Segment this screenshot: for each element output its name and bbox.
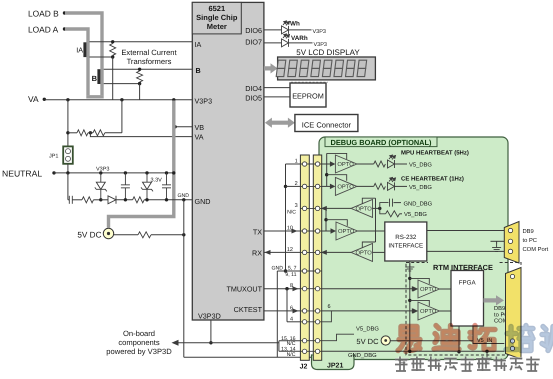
wire JP21 pin6 to opto7 <box>322 310 413 312</box>
wire DB9 gnd stub <box>491 240 505 242</box>
ground symbol RS232 <box>405 264 414 272</box>
LCD digit 5 <box>322 60 332 76</box>
arrow into pin3 <box>321 206 327 211</box>
wire JP21 pin10 to opto4 <box>322 230 331 232</box>
svg-text:GND: GND <box>178 193 190 199</box>
pin circle JP21 row 9 <box>315 320 319 324</box>
wire IB burden to V3P3 net <box>139 84 141 100</box>
junction cap1 bottom <box>124 198 127 201</box>
wire IA secondary top to chip IA <box>90 41 193 43</box>
wire CKTEST to J2 pin6 <box>264 310 301 312</box>
junction neutral-zener2 <box>145 171 148 174</box>
wire to v5_dbg resistor <box>380 208 386 213</box>
svg-text:LOAD B: LOAD B <box>28 9 59 19</box>
wire DIO6 to Wh LED <box>264 29 282 31</box>
junction opto6 feed <box>408 277 411 280</box>
svg-text:DIO6: DIO6 <box>245 26 262 35</box>
5V DC input terminal <box>103 228 113 238</box>
DB9 connector COM port <box>504 222 519 264</box>
LED Wh <box>282 21 290 34</box>
svg-text:V3P3: V3P3 <box>195 97 213 106</box>
wire chip VB pin stub <box>175 126 192 128</box>
RTM interface dashed box <box>406 263 521 356</box>
LCD digit 7 <box>345 60 355 76</box>
wire DIO4 to EEPROM <box>264 87 290 89</box>
wire opto3 input <box>373 207 380 209</box>
junction zener1 bottom <box>99 198 102 201</box>
svg-text:VB: VB <box>195 123 205 132</box>
LED VARh <box>282 34 290 47</box>
svg-text:CE HEARTBEAT (1Hz): CE HEARTBEAT (1Hz) <box>401 176 464 183</box>
junction divider input <box>66 131 69 134</box>
pin circle JP21 row 8 <box>315 309 319 313</box>
wire V3P3D horizontal <box>178 342 268 344</box>
wire IA secondary bottom <box>90 56 113 58</box>
LCD display body <box>278 57 376 80</box>
connector J2 strip <box>300 155 309 360</box>
wire thick load bottom join <box>86 95 103 98</box>
svg-text:3.3V: 3.3V <box>151 178 163 184</box>
wire TMUXOUT to J2 pin8 <box>264 288 301 290</box>
wire opto4 out to RS232 <box>358 230 385 232</box>
node LOAD B terminal <box>63 11 66 14</box>
svg-text:TMUXOUT: TMUXOUT <box>226 285 262 294</box>
svg-text:to PC: to PC <box>523 237 538 244</box>
svg-text:N/C: N/C <box>287 352 296 358</box>
wire opto6 out to FPGA <box>440 288 452 290</box>
wire to pin1 <box>286 163 301 165</box>
svg-text:CKTEST: CKTEST <box>234 305 263 314</box>
junction V3P3D <box>209 341 212 344</box>
LCD digit 1 <box>276 60 286 76</box>
wire GND vertical drop <box>183 200 185 357</box>
arrow TMUXOUT <box>293 286 299 291</box>
svg-text:GND: GND <box>195 197 211 206</box>
svg-text:IA: IA <box>195 40 202 49</box>
svg-text:powered by V3P3D: powered by V3P3D <box>106 347 172 356</box>
wire J2-JP21 row 11 <box>300 350 322 352</box>
pin circle J2 row 9 <box>302 320 306 324</box>
svg-text:INTERFACE: INTERFACE <box>388 243 423 250</box>
watermark blue text pei xun <box>506 326 533 351</box>
6521 single chip meter U1 body <box>192 2 264 320</box>
svg-text:9, 11: 9, 11 <box>285 272 296 278</box>
wire to R1 <box>68 132 77 134</box>
wire opto2 top feed <box>327 175 347 181</box>
LCD digit 3 <box>299 60 309 76</box>
wire LED to V5_DBG <box>395 185 408 187</box>
wire JP21 pins15-16 V5_DBG <box>322 334 354 341</box>
EEPROM box <box>290 83 326 107</box>
connector JP21 strip <box>313 155 321 360</box>
arrow RX into chip <box>265 250 271 255</box>
pin circle J2 row 6 <box>302 269 306 273</box>
svg-text:V3P3D: V3P3D <box>198 311 221 320</box>
svg-text:6: 6 <box>328 304 331 310</box>
pin circle J2 row 1 <box>302 162 306 166</box>
junction between divider resistors <box>89 131 92 134</box>
ICE Connector box <box>295 115 358 132</box>
svg-text:OPTO: OPTO <box>356 206 373 213</box>
junction NEUTRAL to thick rail <box>172 171 175 174</box>
wire J2-JP21 row 8 <box>300 310 322 312</box>
svg-text:DIO4: DIO4 <box>245 84 262 93</box>
watermark red text yi di tuo <box>398 327 420 352</box>
debug board outline <box>319 137 508 360</box>
wire GND bottom run <box>184 356 403 358</box>
svg-text:Meter: Meter <box>207 22 227 31</box>
svg-text:On-board: On-board <box>123 329 155 338</box>
opto U7 <box>418 280 440 298</box>
transformer IA primary core bar <box>83 42 86 57</box>
junction IB burden top <box>138 68 141 71</box>
LED CE heartbeat <box>388 177 396 190</box>
wire 5VDC to resistor <box>114 234 138 236</box>
ICE connector double arrow <box>265 118 295 128</box>
opto U4 <box>351 199 373 217</box>
RS-232 interface box <box>385 222 427 261</box>
wire gnd row <box>72 199 82 201</box>
svg-text:Wh: Wh <box>290 21 300 28</box>
svg-text:VA: VA <box>195 133 204 142</box>
wire thick LOAD A <box>65 29 88 95</box>
wire divider riser to V3P3 net <box>121 100 123 133</box>
svg-text:JP21: JP21 <box>327 363 343 370</box>
DB9 pin circle <box>508 249 512 253</box>
wire NEUTRAL drop to bottom row <box>67 173 69 200</box>
arrow opto7 in <box>412 308 418 313</box>
junction opto3 input <box>378 207 381 210</box>
wire gnd pins drop <box>276 271 278 357</box>
wire J2-JP21 row 4 <box>300 230 322 232</box>
opto U5 <box>336 222 358 240</box>
svg-text:DB9: DB9 <box>494 305 505 312</box>
node VA terminal <box>43 98 46 101</box>
svg-text:DB9: DB9 <box>523 228 534 235</box>
wire J2-JP21 row 7 <box>300 288 322 290</box>
debug board JP21 tab <box>312 355 355 370</box>
faint dashed artifact under LCD <box>291 81 328 83</box>
pin circle J2 row 11 <box>302 349 306 353</box>
pin circle J2 row 3 <box>302 206 306 210</box>
junction GND drop top <box>182 198 185 201</box>
wire opto5 out to JP21 pin12 <box>326 251 352 253</box>
pin circle JP21 row 7 <box>315 287 319 291</box>
junction gnd right <box>485 350 488 353</box>
node NEUTRAL terminal <box>52 171 55 174</box>
junction pin8-pin4 <box>285 287 288 290</box>
svg-text:TX: TX <box>253 227 262 236</box>
wire opto1 out <box>357 163 374 165</box>
zener diode D1 <box>95 173 107 200</box>
junction pin2 bus <box>284 185 287 188</box>
resistor 5VDC series <box>138 232 151 238</box>
chip title compartment <box>192 2 241 34</box>
wire thick LOAD B <box>65 13 102 95</box>
wire GND_DBG bottom run <box>322 350 504 352</box>
junction zener2 bottom <box>145 198 148 201</box>
wire opto5 top feed <box>362 242 375 248</box>
opto U8 <box>418 302 440 320</box>
bus arrow chip to LCD <box>264 63 278 73</box>
wire RS232 to opto5 <box>373 251 385 253</box>
FPGA box <box>451 271 484 327</box>
wire JP21 pin2 to opto2 <box>322 185 330 187</box>
svg-text:B: B <box>196 66 201 75</box>
svg-text:ICE Connector: ICE Connector <box>302 120 352 129</box>
junction neutral-cap1 <box>124 171 127 174</box>
junction VB on thick rail <box>173 125 176 128</box>
wire to pin2 <box>286 185 301 187</box>
wire JP21 pin1 to opto1 <box>322 163 330 165</box>
svg-text:N/C: N/C <box>287 209 296 215</box>
pin circle JP21 row 1 <box>315 162 319 166</box>
svg-text:JP1: JP1 <box>49 154 58 160</box>
resistor R4 <box>133 197 145 203</box>
DB9 pin circle <box>508 228 512 232</box>
svg-text:External Current: External Current <box>121 48 177 57</box>
svg-text:5V LCD DISPLAY: 5V LCD DISPLAY <box>296 48 360 57</box>
svg-text:LOAD A: LOAD A <box>28 25 59 35</box>
wire opto7 top feed <box>410 300 430 306</box>
bus arrow FPGA to DB9 RTM <box>484 295 505 305</box>
svg-text:Single Chip: Single Chip <box>196 13 238 22</box>
svg-text:J2: J2 <box>300 364 308 371</box>
wire JP1 to neutral <box>67 164 69 173</box>
wire VA / V3P3 net to chip V3P3 pin <box>44 99 192 101</box>
pin circle JP21 row 2 <box>315 184 319 188</box>
5V DC debug terminal <box>381 336 390 345</box>
ground symbol DB9 <box>492 244 501 252</box>
resistor CE LED <box>374 183 386 189</box>
capacitor C1 <box>121 173 130 200</box>
junction VA net <box>66 98 69 101</box>
svg-text:COM Port: COM Port <box>523 246 549 253</box>
pin circle J2 row 8 <box>302 309 306 313</box>
LCD digit 2 <box>288 60 298 76</box>
junction gnd bus <box>284 269 287 272</box>
wire VA down to JP1 <box>67 100 69 147</box>
pin circle JP21 row 6 <box>315 269 319 273</box>
transformer IB primary core bar <box>97 69 100 84</box>
wire RX from J2 pin12 <box>264 251 301 253</box>
wire gnd pins 5 7 <box>277 270 300 272</box>
wire opto3 top feed <box>362 198 375 204</box>
arrow CKTEST <box>293 308 299 313</box>
wire thick 5VDC power rail <box>109 101 174 228</box>
wire Wh LED to V3P3 <box>289 29 312 31</box>
wire opto3 out to JP21 pin3 <box>326 207 352 209</box>
pin circle J2 row 5 <box>302 250 306 254</box>
wire J2-JP21 row 1 <box>300 163 322 165</box>
wire RS232 to DB9 line2 <box>427 250 505 252</box>
wire gnd row to chip GND pin <box>144 199 192 201</box>
svg-text:OPTO: OPTO <box>420 286 437 293</box>
svg-text:V5_DBG: V5_DBG <box>409 184 432 191</box>
junction neutral-zener1 <box>99 171 102 174</box>
wire opto1 top feed <box>327 153 347 159</box>
jumper JP1 <box>63 146 73 163</box>
wire DIO7 to VARh LED <box>264 42 282 44</box>
svg-text:V3P3: V3P3 <box>96 167 109 173</box>
svg-text:IA: IA <box>76 46 83 55</box>
wire opto3-5 feed bus <box>375 198 377 242</box>
LCD digit 8 <box>357 60 367 76</box>
wire RS232 to DB9 line1 <box>427 230 505 232</box>
wire pin8 to pin4 <box>286 289 288 322</box>
pin circle JP21 row 4 <box>315 229 319 233</box>
svg-text:DIO7: DIO7 <box>245 38 262 47</box>
svg-text:B: B <box>92 74 98 83</box>
wire FPGA V5 leg <box>473 326 504 344</box>
resistor MPU LED <box>374 161 386 167</box>
svg-text:components: components <box>118 338 160 347</box>
ground symbol RTM right <box>483 355 492 363</box>
DB9 pin circle <box>508 239 512 243</box>
svg-text:3: 3 <box>295 203 298 209</box>
ground symbol meter GND <box>398 357 407 365</box>
wire divider tap to chip VA pin <box>90 133 192 137</box>
capacitor series C3 <box>69 196 72 204</box>
wire NEUTRAL bus <box>54 172 174 174</box>
junction FPGA gnd <box>457 350 460 353</box>
opto U3 <box>335 177 357 195</box>
resistor divider R1 <box>77 130 88 136</box>
wire VARh LED to V3P3 <box>289 42 313 44</box>
junction opto2 feed <box>325 173 328 176</box>
svg-text:V5_DBG: V5_DBG <box>409 161 432 168</box>
wire J2-JP21 row 5 <box>300 251 322 253</box>
opto U6 <box>351 243 373 261</box>
opto U2 <box>335 155 357 173</box>
wire opto7 out to FPGA <box>440 310 452 312</box>
svg-text:DEBUG BOARD (OPTIONAL): DEBUG BOARD (OPTIONAL) <box>330 138 432 147</box>
svg-text:V5_DBG: V5_DBG <box>404 211 427 218</box>
LCD digit 6 <box>334 60 344 76</box>
watermark gray text row <box>395 357 409 372</box>
wire IB secondary bottom <box>104 83 140 85</box>
junction IA burden top <box>111 40 114 43</box>
pin circle J2 row 7 <box>302 287 306 291</box>
svg-text:EEPROM: EEPROM <box>292 91 324 100</box>
wire LED to V5_DBG <box>395 163 408 165</box>
svg-text:NEUTRAL: NEUTRAL <box>2 169 42 179</box>
wire opto feed bus <box>326 153 328 186</box>
wire opto6 top feed <box>410 278 430 284</box>
junction divider top <box>120 98 123 101</box>
wire to gnd_dbg cap <box>380 203 389 209</box>
pin circle JP21 row 11 <box>315 349 319 353</box>
wire R2 to riser <box>105 132 122 134</box>
capacitor C4 <box>390 199 393 207</box>
wire IA burden to V3P3 net <box>112 57 114 100</box>
svg-text:5V DC: 5V DC <box>77 231 101 240</box>
arrow into pin12 <box>321 250 327 255</box>
junction IB burden bottom <box>138 82 141 85</box>
pin circle J2 row 4 <box>302 229 306 233</box>
svg-text:OPTO: OPTO <box>337 161 354 168</box>
svg-text:5V DC: 5V DC <box>356 337 379 346</box>
svg-text:DIO5: DIO5 <box>245 93 262 102</box>
svg-text:RS-232: RS-232 <box>395 234 417 241</box>
diode D3 <box>108 196 116 204</box>
svg-text:MPU HEARTBEAT (5Hz): MPU HEARTBEAT (5Hz) <box>401 149 469 156</box>
wire J2-JP21 row 2 <box>300 185 322 187</box>
LCD digit 4 <box>311 60 321 76</box>
wire J2-JP21 row 9 <box>300 321 322 323</box>
pin circle JP21 row 3 <box>315 206 319 210</box>
resistor R3 <box>82 197 94 203</box>
resistor IA burden <box>110 44 116 56</box>
svg-text:V5_DBG: V5_DBG <box>356 326 379 333</box>
svg-text:OPTO: OPTO <box>338 228 355 235</box>
wire J2-JP21 row 3 <box>300 207 322 209</box>
wire J2-JP21 row 10 <box>300 340 322 342</box>
resistor IB burden <box>137 71 143 82</box>
node LOAD A terminal <box>63 27 66 30</box>
arrow to note <box>172 340 179 346</box>
arrow opto6 in <box>412 286 418 291</box>
junction NEUTRAL-JP1 <box>66 171 69 174</box>
DB9 connector RTM port <box>506 268 522 360</box>
junction opto7 feed <box>408 299 411 302</box>
junction neutral-cap2 <box>165 171 168 174</box>
wire JP21 pin8 to opto6 <box>322 288 413 290</box>
svg-text:VARh: VARh <box>291 35 308 42</box>
wire R1-R2 <box>88 132 93 134</box>
svg-text:VA: VA <box>28 94 39 104</box>
svg-text:OPTO: OPTO <box>356 250 373 257</box>
wire RTM gnd bus <box>409 261 411 352</box>
wire V3P3D to J2 pins 15/16 13/14 <box>268 341 300 352</box>
wire IB secondary top to chip IB <box>104 68 193 70</box>
pin circle J2 row 10 <box>302 339 306 343</box>
junction V3P3 thick wire top <box>172 98 175 101</box>
wire J2 pins1-2 gnd bus <box>285 164 287 271</box>
junction on GND drop <box>182 233 185 236</box>
svg-text:OPTO: OPTO <box>420 308 437 315</box>
svg-text:GND_DBG: GND_DBG <box>404 200 433 207</box>
junction IA burden bottom <box>111 55 114 58</box>
junction gnd bus bottom <box>408 350 411 353</box>
svg-text:Transformers: Transformers <box>127 57 172 66</box>
capacitor C2 <box>162 173 171 200</box>
junction cap2 bottom <box>165 198 168 201</box>
wire resistor to GND drop <box>151 234 184 236</box>
LED MPU heartbeat <box>388 155 396 168</box>
arrow TX <box>292 229 298 234</box>
wire opto2 out <box>357 185 374 187</box>
wire to pin4 <box>287 321 300 323</box>
svg-text:OPTO: OPTO <box>337 184 354 191</box>
zener diode D2 3.3V <box>141 173 153 200</box>
pin circle JP21 row 10 <box>315 339 319 343</box>
pin circle JP21 row 5 <box>315 250 319 254</box>
resistor divider R2 <box>93 130 105 136</box>
svg-text:RX: RX <box>252 249 262 258</box>
wire DIO5 to EEPROM <box>264 96 290 98</box>
junction opto4 feed <box>324 218 327 221</box>
svg-text:GND_DBG: GND_DBG <box>348 352 377 359</box>
svg-text:V3P3: V3P3 <box>313 29 326 35</box>
wire FPGA gnd leg <box>458 326 460 352</box>
wire debug 5V to V5 net <box>390 340 473 342</box>
svg-text:FPGA: FPGA <box>459 280 477 287</box>
svg-text:6521: 6521 <box>208 4 225 13</box>
resistor R5 <box>386 211 400 217</box>
wire feed bus rows3-10 <box>325 208 327 231</box>
wire J2-JP21 row 6 <box>300 270 322 272</box>
